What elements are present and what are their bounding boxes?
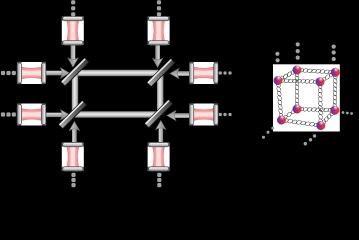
arrow from cavity C5 into BS3 (right) [46,110,70,120]
arrow from cavity C1 into BS1 (down) [68,44,78,68]
continuation dots below cavity C8 [157,173,161,187]
cluster state panel background [273,64,340,131]
continuation dots right of cavity C4 [219,71,232,74]
arrow from cavity C2 into BS2 (down) [152,44,162,68]
spring bond TBL-BBL [295,71,300,107]
beam splitter BS4 (bottom-right) [144,99,172,127]
optical cavity C5 (left lower) [17,103,46,125]
qubit sphere TBL [293,66,302,75]
continuation dots left of cavity C5 [1,112,16,116]
beam splitter BS2 (top-right) [147,58,175,86]
optical cavity C7 (bottom-left) [62,142,84,171]
arrow from cavity C3 into BS1 (right) [46,68,70,78]
wire: interferometer ring top bar [75,70,160,76]
qubit sphere BFR [316,121,325,130]
optical cavity C4 (right upper) [189,62,218,84]
spring bond TBR-BBR [332,74,337,109]
spring bond TFL-TFR [279,78,318,84]
qubit sphere TFR [316,77,325,86]
continuation dots from qubit BFL [262,127,274,139]
continuation dots above qubit TBL [296,42,300,59]
optical cavity C6 (right lower) [189,103,218,125]
continuation dots left of cavity C3 [1,71,16,75]
continuation dots right of cavity C6 [219,113,232,116]
spring bond BFL-BFR [283,118,319,127]
arrow from cavity C4 into BS2 (left) [170,68,194,78]
spring bond TFL-TBL [279,69,296,81]
arrow from cavity C6 into BS4 (left) [167,110,191,120]
optical cavity C3 (left upper) [17,62,46,84]
qubit sphere BBR [330,106,339,115]
wire: interferometer ring right bar [157,73,163,115]
spring bond TBL-TBR [298,68,334,74]
spring bond BBL-BBR [298,107,333,113]
optical cavity C2 (top-right) [147,16,169,45]
wire: interferometer ring bottom bar [75,111,160,117]
wire: interferometer ring left bar [72,73,78,115]
optical cavity C8 (bottom-right) [147,142,169,171]
continuation dots from qubit BFR [304,134,317,145]
continuation dots above qubit TFL [275,52,279,63]
arrow from cavity C8 into BS4 (up) [156,121,166,145]
qubit sphere TBR [331,68,340,77]
qubit sphere BBL [293,105,302,114]
spring bond BFR-BBR [321,110,334,125]
continuation dots above cavity C2 [157,0,161,16]
continuation dots below cavity C7 [71,173,75,187]
spring bond TFR-BFR [318,83,324,124]
continuation dots above qubit TBR [332,45,336,62]
optical cavity C1 (top-left) [62,16,84,45]
qubit sphere TFL [274,76,283,85]
spring bond TFL-BFL [276,82,284,119]
qubit sphere BFL [277,116,286,125]
beam splitter BS3 (bottom-left) [58,100,86,128]
spring bond BFL-BBL [282,108,296,120]
continuation dots right of qubit BBR [342,111,353,115]
beam splitter BS1 (top-left) [61,58,89,86]
arrow from cavity C7 into BS3 (up) [69,122,79,146]
continuation dots above cavity C1 [71,0,75,16]
spring bond TFR-TBR [321,72,335,83]
